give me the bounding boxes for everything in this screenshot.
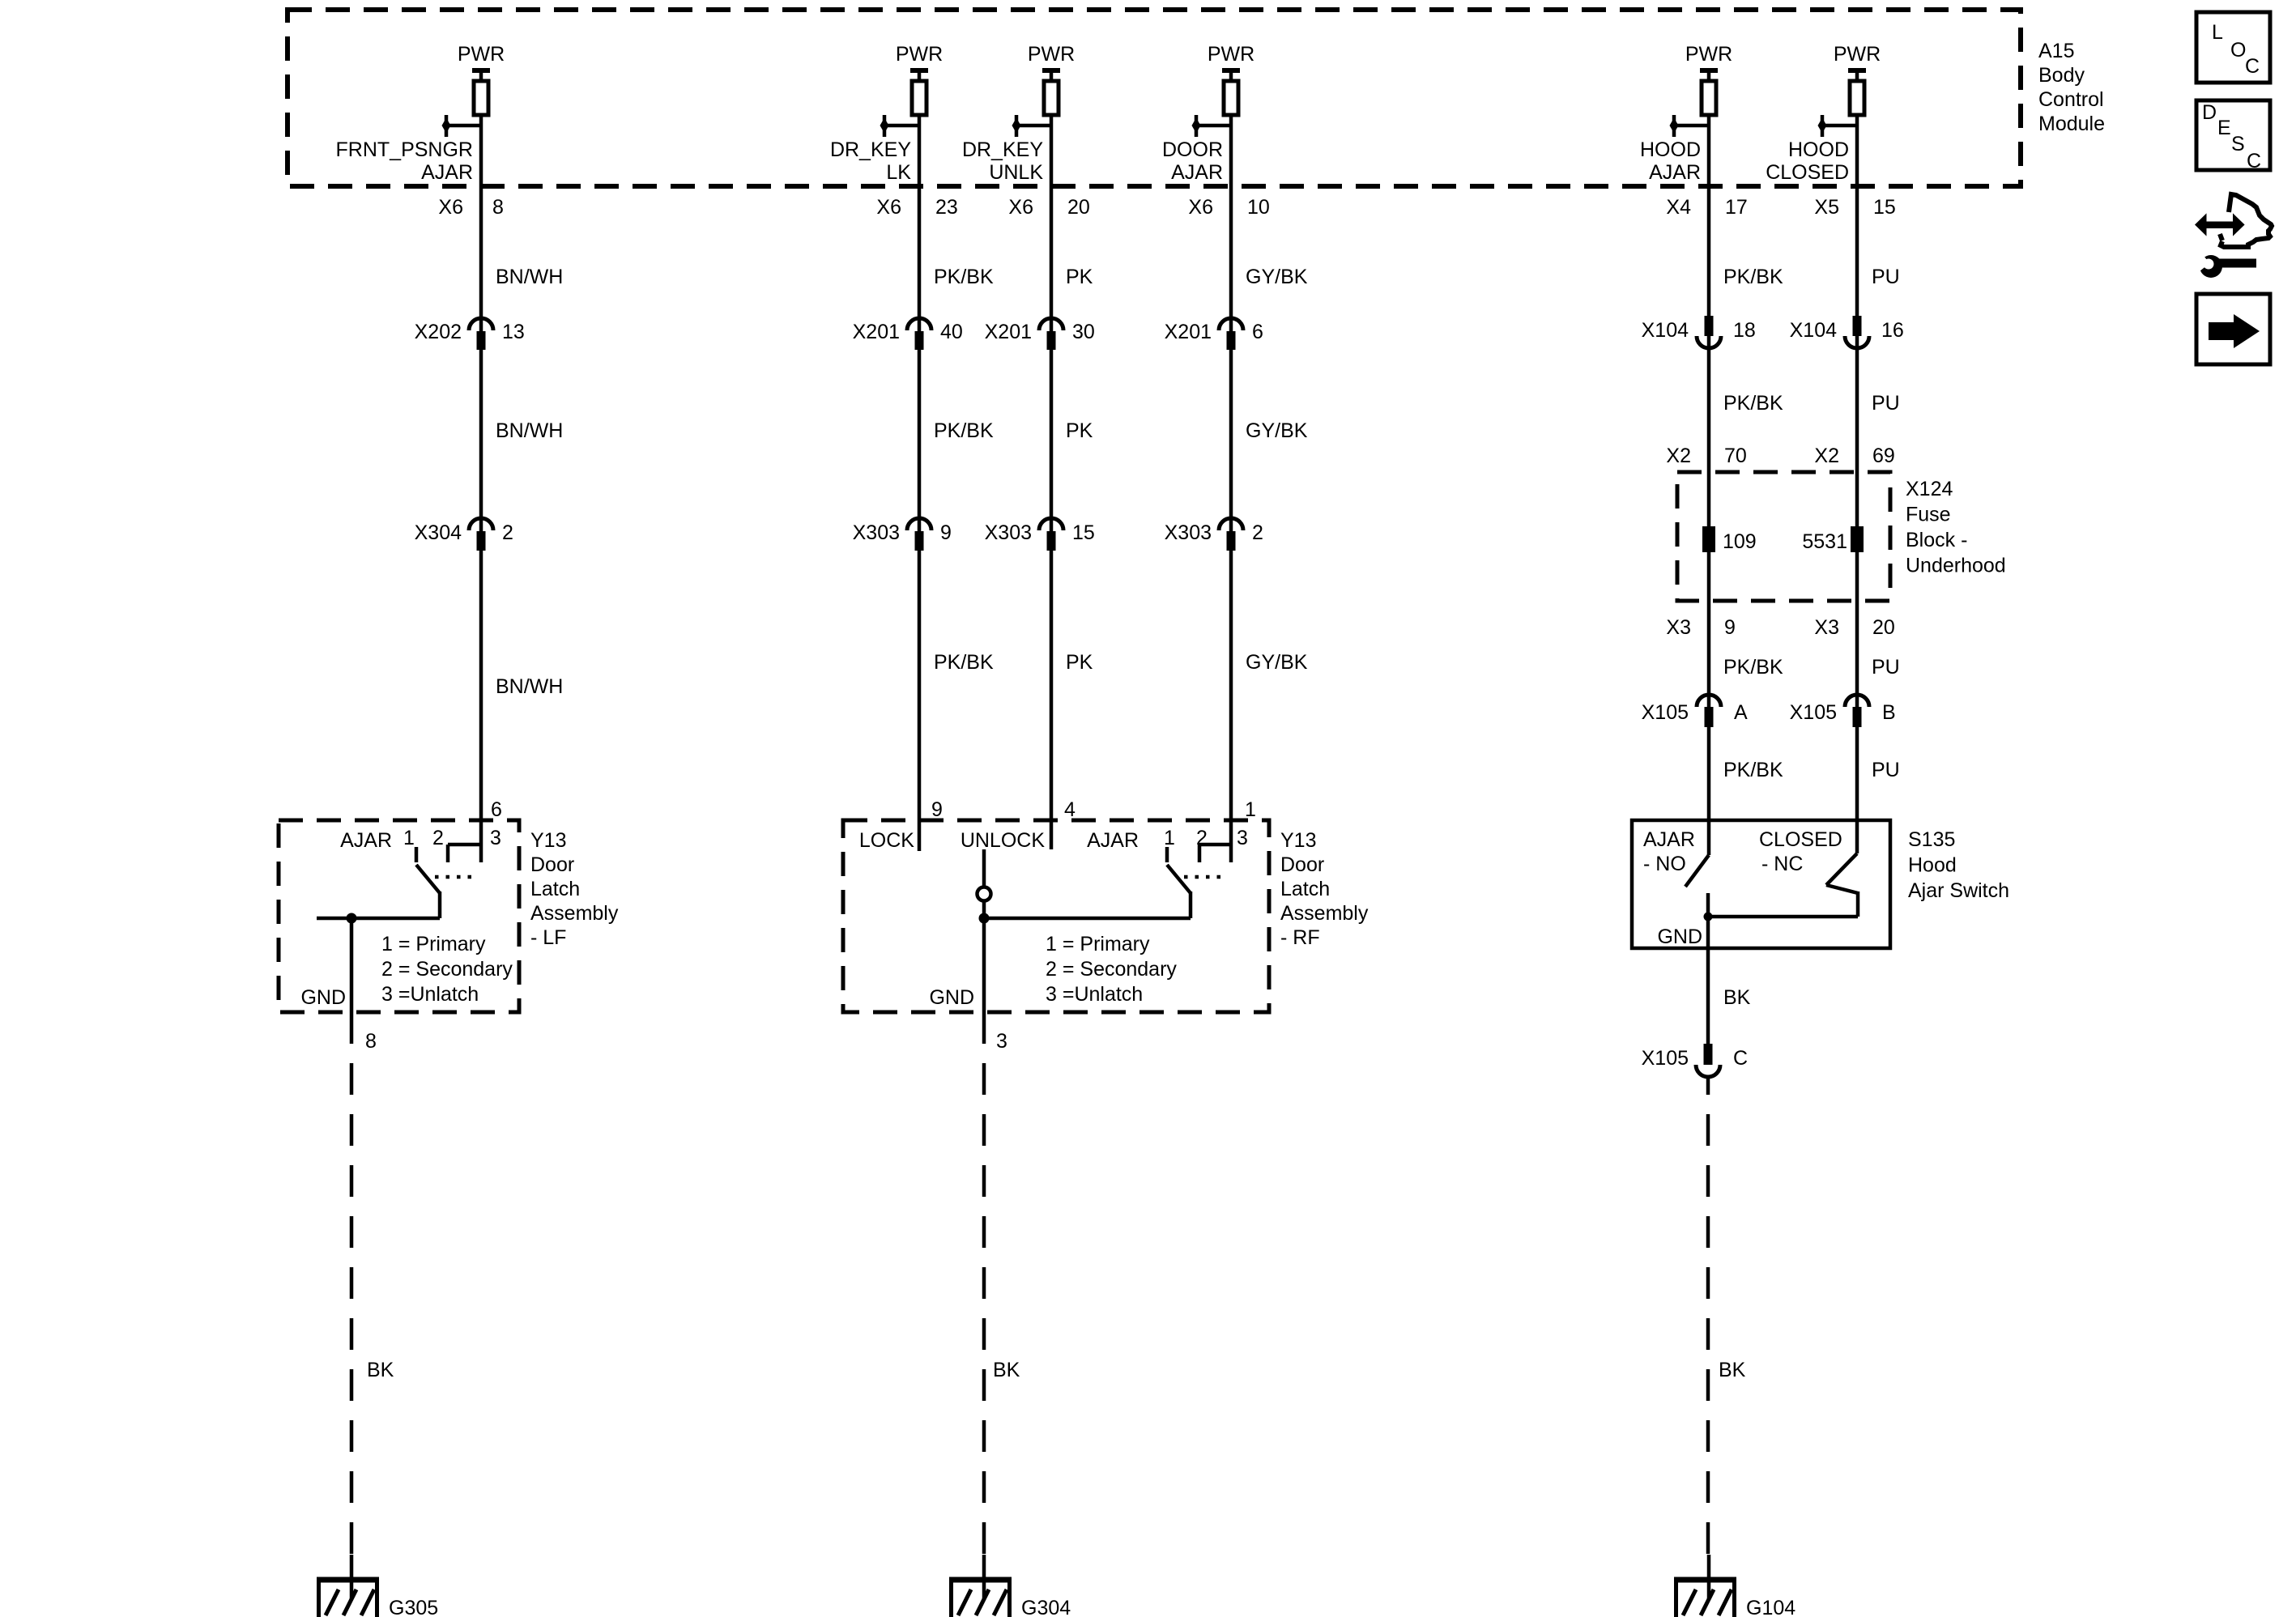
svg-text:BN/WH: BN/WH — [496, 419, 563, 442]
svg-text:C: C — [1733, 1047, 1748, 1070]
svg-text:3: 3 — [1237, 827, 1248, 849]
svg-text:AJAR: AJAR — [1171, 161, 1223, 184]
svg-text:Underhood: Underhood — [1906, 555, 2006, 577]
svg-text:BK: BK — [367, 1359, 394, 1381]
svg-text:17: 17 — [1725, 196, 1748, 219]
svg-text:13: 13 — [502, 321, 525, 343]
svg-text:9: 9 — [1724, 616, 1736, 639]
svg-text:PWR: PWR — [1834, 43, 1881, 66]
svg-text:HOOD: HOOD — [1640, 138, 1701, 161]
svg-text:L: L — [2212, 21, 2223, 44]
svg-text:X201: X201 — [985, 321, 1032, 343]
svg-text:X105: X105 — [1642, 1047, 1689, 1070]
svg-text:S135: S135 — [1908, 828, 1955, 851]
svg-text:- NC: - NC — [1761, 853, 1803, 875]
svg-text:HOOD: HOOD — [1788, 138, 1849, 161]
svg-text:4: 4 — [1064, 798, 1076, 821]
svg-text:X124: X124 — [1906, 478, 1953, 500]
svg-text:X6: X6 — [876, 196, 901, 219]
svg-text:- RF: - RF — [1280, 926, 1320, 949]
svg-text:1: 1 — [1164, 827, 1175, 849]
svg-text:DR_KEY: DR_KEY — [962, 138, 1043, 161]
svg-text:AJAR: AJAR — [340, 829, 392, 852]
svg-text:1: 1 — [403, 827, 415, 849]
svg-text:2 = Secondary: 2 = Secondary — [1046, 958, 1177, 981]
svg-text:3 =Unlatch: 3 =Unlatch — [381, 983, 479, 1006]
svg-text:X303: X303 — [1165, 521, 1212, 544]
svg-text:D: D — [2202, 101, 2217, 124]
svg-text:15: 15 — [1873, 196, 1896, 219]
svg-text:8: 8 — [365, 1030, 377, 1053]
svg-text:BN/WH: BN/WH — [496, 266, 563, 288]
svg-text:30: 30 — [1072, 321, 1095, 343]
svg-text:PU: PU — [1872, 392, 1900, 415]
svg-text:PK/BK: PK/BK — [1723, 656, 1783, 679]
svg-text:X3: X3 — [1666, 616, 1691, 639]
svg-text:G305: G305 — [389, 1597, 438, 1617]
svg-text:CLOSED: CLOSED — [1766, 161, 1849, 184]
svg-text:Control: Control — [2038, 88, 2104, 111]
svg-text:PU: PU — [1872, 266, 1900, 288]
svg-text:LOCK: LOCK — [859, 829, 914, 852]
svg-text:GND: GND — [1657, 926, 1702, 948]
svg-text:Body: Body — [2038, 64, 2085, 87]
svg-text:X105: X105 — [1642, 701, 1689, 724]
svg-text:X104: X104 — [1642, 319, 1689, 342]
svg-text:X201: X201 — [1165, 321, 1212, 343]
svg-text:X2: X2 — [1814, 445, 1839, 467]
svg-text:BK: BK — [1719, 1359, 1746, 1381]
svg-text:X202: X202 — [415, 321, 462, 343]
svg-text:AJAR: AJAR — [1087, 829, 1139, 852]
svg-text:1 = Primary: 1 = Primary — [1046, 933, 1150, 955]
svg-text:PK: PK — [1066, 651, 1093, 674]
svg-text:PK/BK: PK/BK — [1723, 392, 1783, 415]
svg-text:B: B — [1882, 701, 1896, 724]
svg-text:9: 9 — [931, 798, 943, 821]
svg-text:5531: 5531 — [1802, 530, 1847, 553]
svg-text:Door: Door — [530, 853, 574, 876]
svg-text:BK: BK — [1723, 986, 1751, 1009]
svg-text:15: 15 — [1072, 521, 1095, 544]
svg-text:O: O — [2230, 39, 2246, 62]
svg-text:AJAR: AJAR — [1643, 828, 1695, 851]
svg-text:9: 9 — [940, 521, 952, 544]
svg-text:PK/BK: PK/BK — [934, 651, 994, 674]
svg-text:Assembly: Assembly — [530, 902, 619, 925]
svg-text:X304: X304 — [415, 521, 462, 544]
svg-text:DR_KEY: DR_KEY — [830, 138, 911, 161]
svg-text:70: 70 — [1724, 445, 1747, 467]
svg-text:C: C — [2245, 55, 2260, 78]
svg-text:6: 6 — [491, 798, 502, 821]
svg-text:X6: X6 — [438, 196, 463, 219]
svg-text:3 =Unlatch: 3 =Unlatch — [1046, 983, 1143, 1006]
svg-text:1 = Primary: 1 = Primary — [381, 933, 486, 955]
svg-text:X5: X5 — [1814, 196, 1839, 219]
svg-text:2 = Secondary: 2 = Secondary — [381, 958, 513, 981]
svg-text:PWR: PWR — [1028, 43, 1075, 66]
svg-text:A15: A15 — [2038, 40, 2074, 62]
svg-text:PWR: PWR — [458, 43, 505, 66]
svg-text:UNLOCK: UNLOCK — [961, 829, 1046, 852]
svg-text:PK: PK — [1066, 266, 1093, 288]
svg-text:X303: X303 — [985, 521, 1032, 544]
svg-text:Hood: Hood — [1908, 854, 1957, 877]
svg-text:PU: PU — [1872, 656, 1900, 679]
svg-text:PWR: PWR — [1685, 43, 1732, 66]
svg-text:AJAR: AJAR — [421, 161, 473, 184]
svg-text:1: 1 — [1245, 798, 1256, 821]
svg-text:PK/BK: PK/BK — [1723, 266, 1783, 288]
svg-text:UNLK: UNLK — [989, 161, 1043, 184]
svg-text:X104: X104 — [1790, 319, 1837, 342]
svg-text:GY/BK: GY/BK — [1246, 419, 1308, 442]
svg-text:16: 16 — [1881, 319, 1904, 342]
svg-text:Module: Module — [2038, 113, 2105, 135]
svg-text:X3: X3 — [1814, 616, 1839, 639]
svg-text:X105: X105 — [1790, 701, 1837, 724]
svg-text:BN/WH: BN/WH — [496, 675, 563, 698]
svg-text:- NO: - NO — [1643, 853, 1686, 875]
svg-text:PK: PK — [1066, 419, 1093, 442]
svg-text:PWR: PWR — [896, 43, 943, 66]
svg-text:BK: BK — [993, 1359, 1020, 1381]
svg-text:2: 2 — [502, 521, 513, 544]
svg-text:20: 20 — [1872, 616, 1895, 639]
svg-text:23: 23 — [935, 196, 958, 219]
svg-text:10: 10 — [1247, 196, 1270, 219]
svg-text:2: 2 — [432, 827, 444, 849]
svg-text:DOOR: DOOR — [1162, 138, 1223, 161]
svg-text:109: 109 — [1723, 530, 1757, 553]
svg-text:GND: GND — [300, 986, 346, 1009]
svg-text:- LF: - LF — [530, 926, 566, 949]
svg-text:A: A — [1734, 701, 1748, 724]
svg-text:Block -: Block - — [1906, 529, 1967, 551]
svg-text:Assembly: Assembly — [1280, 902, 1369, 925]
svg-text:C: C — [2247, 150, 2261, 172]
svg-text:FRNT_PSNGR: FRNT_PSNGR — [336, 138, 473, 161]
svg-text:20: 20 — [1067, 196, 1090, 219]
svg-text:40: 40 — [940, 321, 963, 343]
svg-text:S: S — [2231, 133, 2245, 155]
svg-text:X201: X201 — [853, 321, 900, 343]
svg-text:PK/BK: PK/BK — [934, 419, 994, 442]
svg-text:AJAR: AJAR — [1649, 161, 1701, 184]
svg-text:E: E — [2217, 117, 2231, 139]
svg-text:LK: LK — [886, 161, 911, 184]
svg-text:69: 69 — [1872, 445, 1895, 467]
svg-text:Fuse: Fuse — [1906, 504, 1951, 526]
svg-text:G104: G104 — [1746, 1597, 1795, 1617]
svg-text:X303: X303 — [853, 521, 900, 544]
svg-text:Latch: Latch — [1280, 878, 1330, 900]
svg-text:Latch: Latch — [530, 878, 580, 900]
svg-text:2: 2 — [1252, 521, 1263, 544]
svg-text:6: 6 — [1252, 321, 1263, 343]
svg-text:Y13: Y13 — [1280, 829, 1316, 852]
svg-text:8: 8 — [492, 196, 504, 219]
svg-text:GY/BK: GY/BK — [1246, 266, 1308, 288]
svg-text:X6: X6 — [1008, 196, 1033, 219]
svg-text:X6: X6 — [1188, 196, 1213, 219]
svg-text:PK/BK: PK/BK — [1723, 759, 1783, 781]
svg-text:GY/BK: GY/BK — [1246, 651, 1308, 674]
svg-text:PK/BK: PK/BK — [934, 266, 994, 288]
svg-text:Y13: Y13 — [530, 829, 566, 852]
svg-text:PU: PU — [1872, 759, 1900, 781]
svg-text:18: 18 — [1733, 319, 1756, 342]
svg-text:Door: Door — [1280, 853, 1324, 876]
svg-text:3: 3 — [996, 1030, 1007, 1053]
svg-text:X4: X4 — [1666, 196, 1691, 219]
svg-text:G304: G304 — [1021, 1597, 1071, 1617]
svg-text:3: 3 — [490, 827, 501, 849]
svg-text:PWR: PWR — [1208, 43, 1254, 66]
svg-text:CLOSED: CLOSED — [1759, 828, 1842, 851]
svg-text:GND: GND — [929, 986, 974, 1009]
svg-text:Ajar Switch: Ajar Switch — [1908, 879, 2009, 902]
svg-text:X2: X2 — [1666, 445, 1691, 467]
